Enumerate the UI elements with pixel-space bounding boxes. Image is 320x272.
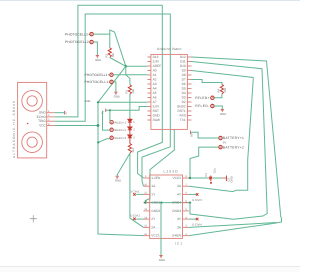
- svg-text:DCM1: DCM1: [130, 189, 140, 193]
- junction button bus: [109, 109, 111, 111]
- wire photocell1- to ground: [113, 82, 116, 92]
- pad IRLED2: [110, 128, 113, 131]
- svg-text:A4: A4: [153, 86, 157, 90]
- svg-text:A7: A7: [153, 100, 157, 104]
- wire bus diagonal up to node A: [98, 66, 147, 102]
- svg-text:D11: D11: [180, 59, 186, 63]
- wire pad1 up to bus: [109, 110, 111, 122]
- svg-text:AREF: AREF: [153, 64, 162, 68]
- wire RFLED net from Nano D7: [192, 80, 222, 85]
- pad PHOTOCELL2+: [90, 32, 93, 35]
- pad RFLED+: [211, 96, 214, 99]
- svg-text:DCM4: DCM4: [192, 223, 202, 227]
- svg-text:DCM2: DCM2: [130, 214, 140, 218]
- svg-text:Arduino Nano: Arduino Nano: [157, 47, 182, 51]
- wire LED column to L293D row7: [130, 153, 144, 227]
- wire node A down to divider R1: [126, 66, 130, 85]
- wire LED column to ground GND3: [117, 153, 130, 176]
- L293D right pin numbers: [185, 175, 187, 236]
- wire L293D row8 to outer right loop and Nano D12: [189, 57, 282, 236]
- svg-text:IRLED+1: IRLED+1: [114, 120, 126, 124]
- ground GND1: [96, 56, 99, 58]
- svg-text:VCC2: VCC2: [172, 176, 181, 180]
- svg-text:PHOTOCELL2+: PHOTOCELL2+: [65, 32, 90, 36]
- svg-text:DCM3: DCM3: [192, 198, 202, 202]
- Nano left pin stubs: [147, 57, 151, 120]
- wire photocell2- to ground: [93, 42, 97, 55]
- wire ECHO loop over top into Nano area: [54, 5, 162, 178]
- pad PHOTOCELL1+: [110, 73, 113, 76]
- svg-text:VCC: VCC: [39, 123, 46, 127]
- stub end mark button bus: [105, 109, 107, 113]
- L293D right pin stubs: [183, 178, 189, 236]
- top window border: [0, 0, 300, 2]
- svg-text:GND1: GND1: [151, 201, 160, 205]
- sensor pin-1 dot: [27, 123, 29, 125]
- svg-text:D3: D3: [182, 95, 186, 99]
- junction L293D row4 right: [189, 201, 191, 203]
- junction L293D row4 left: [144, 201, 146, 203]
- wire main left vertical bus: [98, 102, 144, 235]
- no-connect DCM2: [136, 218, 143, 220]
- svg-text:GND3: GND3: [172, 209, 181, 213]
- wire battery+2 down to VCC2: [190, 147, 218, 178]
- svg-text:PHOTOCELL1-: PHOTOCELL1-: [85, 80, 110, 84]
- svg-text:TX1: TX1: [180, 118, 186, 122]
- svg-text:IRLED+3: IRLED+3: [114, 136, 126, 140]
- svg-text:10k: 10k: [111, 52, 115, 57]
- svg-text:RST1: RST1: [178, 109, 186, 113]
- pad RFLED-: [211, 104, 214, 107]
- svg-text:D7: D7: [182, 77, 186, 81]
- svg-text:RAW: RAW: [153, 118, 160, 122]
- ultrasonic sensor U1 body: [18, 82, 47, 157]
- ground GND2: [114, 92, 117, 94]
- svg-text:D8: D8: [182, 73, 186, 77]
- svg-text:D12: D12: [180, 55, 186, 59]
- ground GND3: [116, 176, 119, 178]
- sensor pin stubs: [47, 113, 55, 126]
- capacitor C2: [222, 177, 227, 179]
- svg-text:A3: A3: [153, 82, 157, 86]
- svg-text:9V: 9V: [223, 141, 227, 145]
- svg-text:C1: C1: [204, 173, 208, 177]
- resistor R3: [128, 138, 131, 153]
- svg-text:ULTRASONIC-HC-SR04V: ULTRASONIC-HC-SR04V: [12, 100, 16, 158]
- junction bus pad3: [97, 141, 99, 143]
- svg-text:PHOTOCELL2-: PHOTOCELL2-: [65, 40, 90, 44]
- ground GND4 below L293D: [159, 256, 162, 258]
- svg-text:9V: 9V: [190, 133, 194, 137]
- L293D left pin numbers: [144, 175, 147, 236]
- svg-text:D10: D10: [180, 64, 186, 68]
- wire third vertical below Nano to L293D row4: [146, 129, 175, 202]
- svg-text:BATTERY+2: BATTERY+2: [223, 145, 244, 149]
- wire button bus horizontal: [106, 107, 147, 111]
- junction L293D ground drop: [160, 201, 162, 203]
- Nano left pin names: [153, 55, 162, 122]
- wire L293D ground drop: [160, 203, 162, 256]
- svg-text:10u: 10u: [213, 168, 217, 173]
- capacitor C1: [208, 177, 213, 179]
- wire L293D row4 to middle right loop and Nano D11: [190, 62, 267, 220]
- stub end mark battery net: [190, 131, 192, 135]
- svg-text:10: 10: [64, 111, 68, 115]
- LED D1: [128, 118, 132, 123]
- svg-text:GND: GND: [229, 176, 233, 182]
- L293D left pin names: [151, 176, 161, 238]
- wire L293D row2 to inner loop and Nano D9: [189, 71, 253, 192]
- svg-text:RFLED+: RFLED+: [195, 96, 209, 100]
- svg-text:PHOTOCELL1+: PHOTOCELL1+: [85, 73, 110, 77]
- node A junction: [125, 65, 127, 67]
- svg-text:3-4EN: 3-4EN: [172, 234, 182, 238]
- wire R1 bottom down to LED column: [129, 94, 131, 118]
- ground GND5: [221, 110, 224, 112]
- svg-text:D9: D9: [182, 68, 186, 72]
- pad PHOTOCELL2-: [90, 40, 93, 43]
- svg-text:A6: A6: [153, 95, 157, 99]
- svg-text:GND: GND: [95, 58, 101, 62]
- svg-text:GND: GND: [159, 258, 165, 262]
- junction VCC2: [189, 177, 191, 179]
- svg-text:D5: D5: [182, 86, 186, 90]
- wire L293D row7 short diagonal: [189, 223, 277, 228]
- svg-text:GND2: GND2: [151, 209, 160, 213]
- wire TRIG loop over top into Nano area: [54, 14, 170, 186]
- svg-text:RST: RST: [153, 109, 159, 113]
- svg-text:VCC1: VCC1: [151, 234, 160, 238]
- bottom divider: [0, 267, 300, 272]
- Arduino Nano U2 body: [151, 54, 188, 129]
- wire R4 to RFLED+ pad: [214, 94, 222, 98]
- LED D2: [128, 122, 132, 130]
- svg-text:GND: GND: [85, 99, 91, 103]
- svg-text:A5: A5: [153, 91, 157, 95]
- no-connect DCM3: [189, 193, 196, 195]
- svg-text:5.0V: 5.0V: [153, 104, 160, 108]
- sensor transducer circle bottom: [22, 132, 43, 153]
- LED D3: [128, 130, 132, 138]
- svg-text:3.3V: 3.3V: [153, 59, 160, 63]
- wire VCC2 net to capacitors: [190, 177, 222, 179]
- svg-text:220: 220: [223, 87, 227, 92]
- wire battery+1 to stub end: [191, 132, 219, 138]
- junction bus VCC: [97, 124, 100, 127]
- wire photocell1+ to Nano A1: [113, 74, 147, 76]
- svg-text:D4: D4: [182, 91, 186, 95]
- svg-text:D13: D13: [153, 55, 159, 59]
- svg-text:RX0: RX0: [179, 113, 185, 117]
- svg-text:R4: R4: [217, 88, 221, 92]
- L293D right pin names: [172, 176, 182, 238]
- svg-text:R1: R1: [125, 89, 129, 93]
- wire bus to Nano 5V: [98, 101, 147, 103]
- svg-text:GND4: GND4: [172, 201, 181, 205]
- wire pad3 diagonal to main bus: [98, 139, 109, 143]
- L293D IC1 body: [150, 175, 183, 238]
- svg-text:D2: D2: [182, 100, 186, 104]
- Nano right pin stubs: [187, 57, 191, 120]
- wire L293D row4 through IC: [144, 202, 190, 204]
- no-connect mark sensor GND pin: [64, 111, 66, 115]
- pad BATTERY+1: [219, 136, 222, 139]
- svg-text:D6: D6: [182, 82, 186, 86]
- svg-text:GND2: GND2: [177, 104, 186, 108]
- svg-text:GND: GND: [114, 95, 120, 99]
- sensor pin names: [37, 111, 47, 128]
- wire R2 bottom to node A: [110, 58, 126, 67]
- sensor pin numbers: [48, 110, 50, 126]
- wire photocell2+ up and diagonal to node A: [93, 30, 125, 66]
- resistor R2: [108, 48, 111, 58]
- svg-text:RFLED-: RFLED-: [195, 104, 209, 108]
- svg-text:GND: GND: [153, 113, 161, 117]
- svg-text:10k: 10k: [131, 88, 135, 93]
- pad PHOTOCELL1-: [110, 80, 113, 83]
- svg-text:L293D: L293D: [164, 170, 179, 174]
- svg-text:A2: A2: [153, 77, 157, 81]
- svg-text:IC1: IC1: [175, 241, 182, 245]
- L293D left pin stubs: [144, 178, 150, 236]
- wire RFLED- to ground: [214, 106, 222, 109]
- Nano right pin names: [177, 55, 186, 122]
- svg-text:R2: R2: [104, 53, 108, 57]
- sensor transducer circle top: [22, 91, 43, 112]
- resistor R4: [220, 85, 223, 95]
- svg-text:IRLED+2: IRLED+2: [114, 128, 126, 132]
- no-connect DCM1: [136, 193, 143, 195]
- wire sensor GND stub end: [54, 112, 64, 114]
- pad IRLED1: [110, 121, 113, 124]
- no-connect DCM4: [189, 218, 196, 220]
- wire sensor VCC to vertical bus: [54, 125, 98, 127]
- pad BATTERY+2: [219, 145, 222, 148]
- svg-text:2k2: 2k2: [131, 148, 135, 153]
- svg-text:1-2EN: 1-2EN: [151, 176, 161, 180]
- resistor R1: [128, 85, 131, 95]
- wire pad2 to bus: [103, 111, 110, 130]
- junction node B: [97, 101, 99, 103]
- svg-text:GND: GND: [220, 112, 226, 116]
- svg-text:GND: GND: [115, 179, 121, 183]
- svg-text:A1: A1: [153, 73, 157, 77]
- svg-text:A0: A0: [153, 68, 157, 72]
- grid cross mark: [30, 215, 37, 222]
- pad IRLED3: [110, 136, 113, 139]
